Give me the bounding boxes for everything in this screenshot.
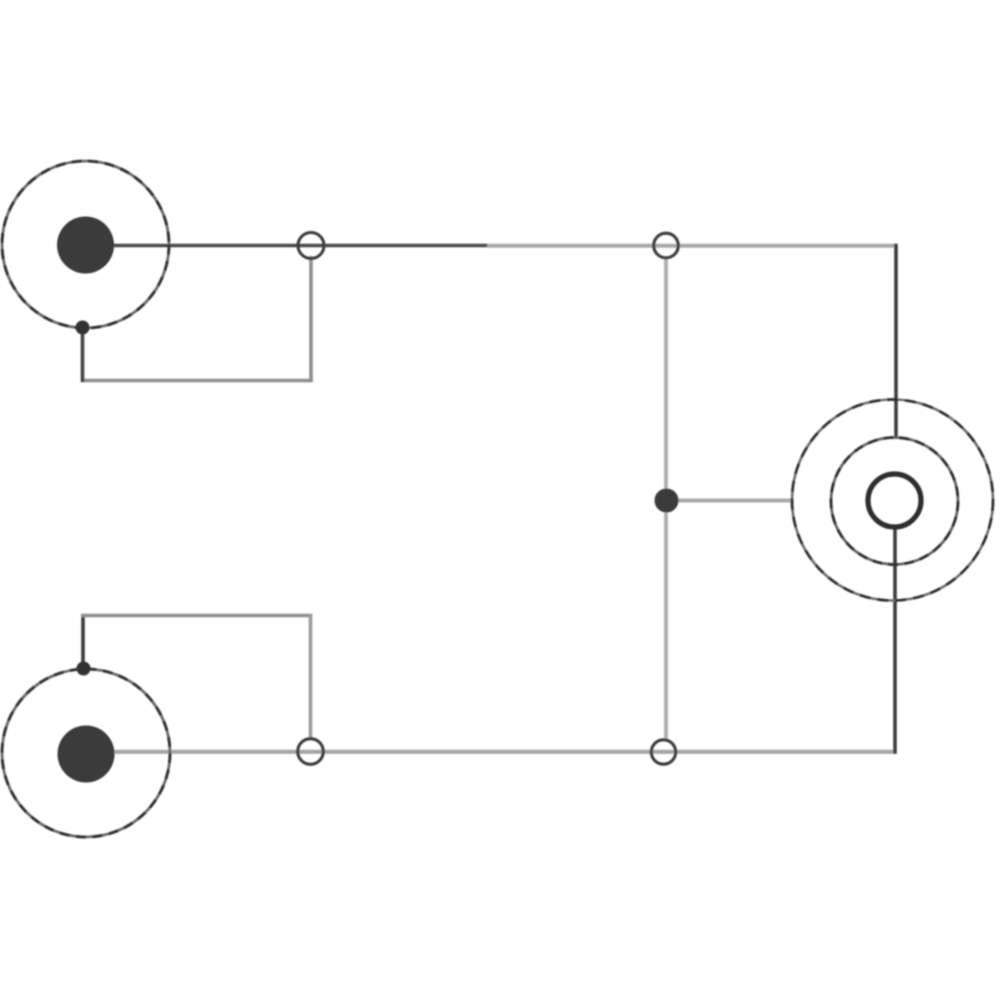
terminal circle: shield bus on bottom wire (x=664) (651, 740, 675, 764)
wire: top shield loop vertical at RCA J1 (x=82) (81, 329, 85, 382)
jack plug P1 sleeve circle (outer) (792, 400, 993, 601)
wire: shield bus vertical (x=666) (664, 258, 668, 741)
junction dot: shield bus to sleeve (x=666,y=500) (655, 489, 679, 513)
jack plug P1 ring circle (middle) (831, 438, 958, 565)
terminal circle: shield bus on top wire (x=666) (654, 233, 679, 258)
RCA plug J2 center pin (58, 726, 115, 783)
terminal circle: J2 signal tap (x=310) (298, 739, 324, 765)
RCA plug J1 body circle (2, 161, 169, 328)
wire: top shield loop vertical (x=311) (309, 256, 313, 381)
wire: top shield loop horizontal (y=380) (81, 379, 313, 383)
wire: J1 signal, dark segment (y=245) (86, 244, 488, 248)
wire: bottom shield loop vertical (x=310) (309, 614, 313, 740)
RCA plug J1 center pin (57, 217, 114, 274)
wire: J1 signal, grey segment to right corner (y=245) (487, 244, 898, 248)
RCA plug J1 shield contact dot (76, 321, 90, 335)
wire: bottom shield loop horizontal (y=615) (81, 614, 312, 618)
RCA plug J2 body circle (2, 669, 170, 837)
jack plug P1 tip circle (inner, bold) (868, 474, 921, 527)
wire: bottom shield loop vertical at RCA J2 (x=83) (81, 614, 85, 667)
wire: right vertical, jack tip to bottom corner (x=895) (893, 526, 897, 754)
wire: bottom signal (y=752) (86, 750, 896, 754)
RCA plug J2 shield contact dot (77, 662, 91, 676)
wire: sleeve connection to jack (y=500) (666, 499, 793, 503)
wire: right vertical, corner to jack ring (x=896) (894, 244, 898, 438)
terminal circle: J1 signal tap (x=311) (298, 233, 324, 259)
